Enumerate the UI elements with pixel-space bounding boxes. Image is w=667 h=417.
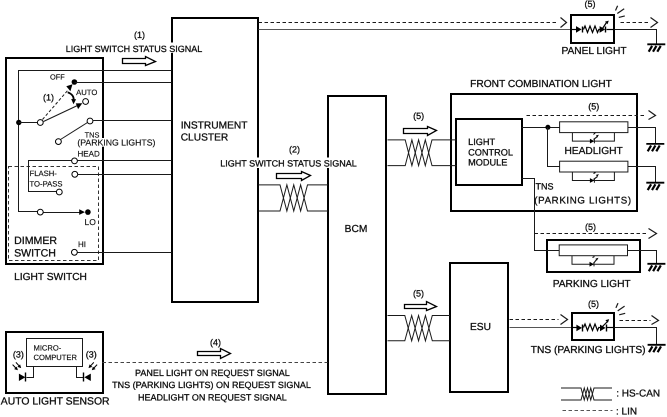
- label LO: [85, 217, 97, 227]
- svg-text:HEADLIGHT: HEADLIGHT: [564, 146, 622, 157]
- svg-text:(5): (5): [585, 222, 596, 232]
- arrowhead LIN parking light: [649, 229, 657, 239]
- label HS-CAN legend: [616, 388, 660, 399]
- light arrows into left photodiode: [13, 362, 22, 370]
- wire: instrument cluster to panel light (solid): [259, 29, 572, 31]
- wire: light switch common bus: [19, 71, 172, 212]
- label DIMMER: [14, 235, 57, 247]
- svg-text:TNS: TNS: [536, 182, 554, 192]
- label (5) parking LIN: [585, 222, 596, 232]
- svg-text:FRONT COMBINATION LIGHT: FRONT COMBINATION LIGHT: [470, 79, 612, 90]
- label HEAD: [78, 150, 100, 159]
- wire: FLASH-TO-PASS contact to instrument cluster: [78, 174, 172, 176]
- svg-text:AUTO: AUTO: [76, 88, 97, 97]
- HS-CAN twisted pair: BCM to ESU: [388, 316, 451, 341]
- label PANEL LIGHT ON REQUEST SIGNAL: [135, 368, 290, 378]
- svg-text:BCM: BCM: [345, 224, 368, 235]
- ground parking light: [647, 264, 665, 271]
- svg-text:AUTO LIGHT SENSOR: AUTO LIGHT SENSOR: [1, 396, 110, 407]
- wire: LCM to headlight 1: [522, 127, 560, 129]
- label AUTO LIGHT SENSOR: [1, 396, 110, 407]
- label (PARKING LIGHTS) in FCL: [534, 195, 631, 206]
- label PARKING LIGHT: [553, 279, 631, 290]
- label (1) rotary: [43, 92, 54, 102]
- ESU box: [450, 263, 508, 392]
- arrowhead LIN headlight: [649, 111, 656, 120]
- dimmer switch dashed box: [9, 167, 99, 261]
- svg-text:(5): (5): [588, 299, 599, 309]
- LIN wire: auto light sensor to BCM (dashed): [103, 362, 328, 364]
- svg-text:PARKING LIGHT: PARKING LIGHT: [553, 279, 631, 290]
- svg-text:(4): (4): [210, 337, 221, 347]
- auto light sensor box: [6, 332, 103, 393]
- svg-text:: LIN: : LIN: [616, 406, 637, 417]
- label INSTRUMENT: [181, 121, 248, 132]
- label (5) panel light LIN: [585, 0, 596, 9]
- svg-text:(2): (2): [289, 144, 300, 154]
- light rays panel light: [616, 6, 625, 18]
- svg-text:SWITCH: SWITCH: [14, 248, 56, 260]
- light control module box: [456, 119, 522, 185]
- HI contact: [72, 249, 78, 255]
- svg-text:CLUSTER: CLUSTER: [181, 133, 229, 144]
- LO contact (closed, filled): [85, 209, 91, 215]
- throw to AUTO (solid) with arrowhead: [44, 103, 83, 121]
- label (4): [210, 337, 221, 347]
- label (3) right: [86, 350, 97, 360]
- svg-text:(5): (5): [413, 111, 424, 121]
- svg-text:(5): (5): [413, 288, 424, 298]
- label FLASH-: [30, 169, 58, 178]
- wire: headlight 2 to ground: [628, 167, 656, 183]
- ground TNS lamp: [648, 345, 666, 352]
- rotation arrow between OFF and AUTO: [68, 92, 76, 104]
- svg-text:(3): (3): [13, 350, 24, 360]
- wire: TNS lamp to ground: [615, 328, 657, 345]
- instrument cluster box: [172, 18, 258, 302]
- label TNS in FCL: [536, 182, 554, 192]
- parking light outer box: [547, 240, 640, 272]
- label LIN legend: [616, 406, 637, 417]
- LIN wire: instrument cluster to panel light (dashed): [259, 22, 559, 24]
- svg-text:(1): (1): [43, 92, 54, 102]
- wire: headlight 1 to ground: [628, 128, 656, 144]
- svg-text:(PARKING LIGHTS): (PARKING LIGHTS): [534, 195, 631, 206]
- wire: HEAD contact to instrument cluster: [78, 160, 172, 162]
- wire: micro-computer to left photodiode: [27, 367, 34, 378]
- svg-text:LIGHT SWITCH: LIGHT SWITCH: [14, 272, 87, 283]
- label TO-PASS: [30, 180, 63, 189]
- ground headlight 1: [646, 144, 664, 151]
- junction: common bus tap: [16, 120, 37, 125]
- right photodiode: [84, 373, 91, 382]
- wire: LCM to parking light: [522, 179, 561, 251]
- svg-text:FLASH-: FLASH-: [30, 169, 58, 178]
- label BCM: [345, 224, 368, 235]
- HS-CAN twisted pair: instrument cluster to BCM: [259, 185, 328, 211]
- svg-text:INSTRUMENT: INSTRUMENT: [181, 121, 248, 132]
- wire: HEAD contact to flash-to-pass moving contact: [29, 161, 72, 192]
- svg-text:HEAD: HEAD: [78, 150, 100, 159]
- svg-text:PANEL LIGHT ON REQUEST SIGNAL: PANEL LIGHT ON REQUEST SIGNAL: [135, 368, 290, 378]
- label SWITCH: [14, 248, 56, 260]
- label LIGHT SWITCH: [14, 272, 87, 283]
- front combination light box: [451, 94, 637, 211]
- ground headlight 2: [646, 183, 664, 190]
- BCM box: [328, 96, 386, 394]
- svg-text:LIGHT SWITCH STATUS SIGNAL: LIGHT SWITCH STATUS SIGNAL: [220, 159, 357, 169]
- parking light bulb: [559, 245, 627, 267]
- wire: junction down to headlight 2: [548, 128, 560, 167]
- junction dot headlight feed: [545, 125, 550, 130]
- micro-computer box: [27, 339, 83, 367]
- HEAD contact: [72, 158, 78, 164]
- TNS moving contact and throw: [56, 123, 88, 145]
- label CLUSTER: [181, 133, 229, 144]
- ground panel light: [647, 44, 665, 51]
- label (2): [289, 144, 300, 154]
- wire: HI contact to instrument cluster: [78, 252, 172, 254]
- label LIGHT SWITCH STATUS SIGNAL (1): [64, 43, 205, 54]
- legend HS-CAN twisted pair symbol: [561, 388, 612, 400]
- svg-text:(1): (1): [134, 30, 145, 40]
- label TNS switch: [83, 130, 101, 139]
- arrowhead LIN to TNS lamp: [561, 315, 568, 325]
- svg-text:COMPUTER: COMPUTER: [34, 353, 78, 362]
- LIN wire after panel light (dashed): [621, 22, 651, 24]
- light switch outer box: [6, 58, 103, 264]
- svg-text:PANEL LIGHT: PANEL LIGHT: [561, 46, 626, 57]
- label TNS (PARKING LIGHTS) ON REQUEST SIGNAL: [112, 380, 311, 390]
- wire: TNS contact to instrument cluster: [93, 120, 172, 122]
- arrowhead LIN after panel light: [651, 18, 658, 28]
- wire: ESU to TNS lamp (solid): [510, 327, 572, 329]
- OFF contact (closed, filled): [72, 79, 78, 85]
- TNS contact: [87, 118, 93, 124]
- label (3) left: [13, 350, 24, 360]
- wire: OFF contact to instrument cluster: [75, 82, 172, 84]
- svg-text:HI: HI: [78, 240, 86, 249]
- wire: parking light to ground: [628, 251, 657, 264]
- label HEADLIGHT ON REQUEST SIGNAL: [138, 392, 287, 402]
- throw to OFF (dashed) with arrowhead: [43, 84, 73, 119]
- signal flow arrow (5) BCM to LCM: [404, 127, 437, 136]
- wire: panel light to ground: [615, 30, 657, 44]
- signal flow arrow (4): [198, 349, 231, 359]
- label MODULE (LCM): [468, 158, 507, 168]
- svg-text:OFF: OFF: [50, 73, 65, 82]
- headlight bulb 1: [560, 122, 628, 144]
- svg-text:(5): (5): [588, 102, 599, 112]
- label (5) BCM to FCL: [413, 111, 424, 121]
- label (5) headlight LIN: [588, 102, 599, 112]
- signal flow arrow (1): [123, 57, 156, 66]
- label OFF: [50, 73, 65, 82]
- label FRONT COMBINATION LIGHT: [470, 79, 612, 90]
- label (1) top: [134, 30, 145, 40]
- svg-text:(3): (3): [86, 350, 97, 360]
- headlight bulb 2: [560, 161, 628, 183]
- label LIGHT SWITCH STATUS SIGNAL (2): [218, 158, 359, 169]
- label HI: [78, 240, 86, 249]
- svg-text:CONTROL: CONTROL: [468, 147, 513, 157]
- svg-text:TO-PASS: TO-PASS: [30, 180, 63, 189]
- panel light lamp box: [571, 15, 615, 43]
- light rays TNS lamp: [616, 303, 625, 315]
- svg-text:: HS-CAN: : HS-CAN: [616, 388, 660, 399]
- svg-text:HEADLIGHT ON REQUEST SIGNAL: HEADLIGHT ON REQUEST SIGNAL: [138, 392, 287, 402]
- signal flow arrow (2): [277, 172, 311, 181]
- label (5) BCM to ESU: [413, 288, 424, 298]
- arrowhead LIN after TNS lamp: [652, 316, 659, 325]
- label TNS (PARKING LIGHTS) bottom: [531, 345, 646, 356]
- label ESU: [470, 322, 491, 333]
- dimmer pivot contact: [37, 209, 43, 215]
- svg-text:TNS (PARKING LIGHTS): TNS (PARKING LIGHTS): [531, 345, 646, 356]
- label HEADLIGHT: [564, 146, 622, 157]
- flash-to-pass moving contact: [56, 189, 62, 195]
- LIN wire after TNS lamp (dashed): [620, 320, 651, 322]
- FLASH-TO-PASS contact: [72, 171, 78, 177]
- svg-text:LO: LO: [85, 217, 97, 227]
- label MICRO-: [34, 343, 62, 352]
- label (5) TNS lamp LIN: [588, 299, 599, 309]
- LIN wire: ESU to TNS lamp (dashed): [510, 319, 559, 321]
- light arrows into right photodiode: [89, 362, 98, 370]
- label PANEL LIGHT: [561, 46, 626, 57]
- label COMPUTER: [34, 353, 78, 362]
- svg-text:ESU: ESU: [470, 322, 491, 333]
- legend LIN dashed line: [563, 410, 613, 412]
- rotary switch pivot contact: [37, 120, 43, 126]
- label LIGHT (LCM): [468, 137, 495, 147]
- dimmer throw wire with arrowhead to LO: [44, 209, 85, 215]
- arrowhead LIN to panel light: [561, 18, 567, 28]
- LIN wire: parking light (dashed): [535, 233, 649, 235]
- svg-text:TNS (PARKING LIGHTS) ON REQUES: TNS (PARKING LIGHTS) ON REQUEST SIGNAL: [112, 380, 311, 390]
- AUTO contact: [83, 99, 89, 105]
- svg-text:DIMMER: DIMMER: [14, 235, 57, 247]
- signal flow arrow (5) BCM to ESU: [405, 302, 437, 311]
- svg-text:MODULE: MODULE: [468, 158, 507, 168]
- svg-text:(PARKING LIGHTS): (PARKING LIGHTS): [77, 138, 155, 148]
- TNS (parking lights) lamp box: [572, 313, 615, 340]
- wire: micro-computer to right photodiode: [77, 367, 84, 378]
- HS-CAN twisted pair: BCM to light control module: [388, 140, 457, 166]
- label CONTROL (LCM): [468, 147, 513, 157]
- svg-text:(5): (5): [585, 0, 596, 9]
- svg-text:LIGHT SWITCH STATUS SIGNAL: LIGHT SWITCH STATUS SIGNAL: [66, 44, 203, 54]
- left photodiode: [19, 373, 26, 382]
- svg-text:MICRO-: MICRO-: [34, 343, 62, 352]
- wire: feed into parking bulb: [547, 250, 561, 252]
- svg-text:LIGHT: LIGHT: [468, 137, 495, 147]
- LIN wire: LCM to headlights (dashed): [527, 115, 647, 117]
- label AUTO: [76, 88, 97, 97]
- label (PARKING LIGHTS) switch: [76, 138, 156, 148]
